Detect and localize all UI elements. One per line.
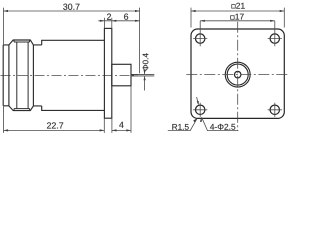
arrow dim 2 left (100, 20, 105, 22)
arrow 30.7 right (135, 10, 140, 12)
arrow 4-phi2.5 to hole (200, 117, 202, 122)
centerline left view (1, 74, 137, 76)
arrow square17 right (270, 20, 275, 22)
coupling nut outline (9, 40, 34, 111)
crosshair hole bottom-left (193, 103, 207, 117)
arrow phi0.4 up (144, 76, 146, 80)
neck section (33, 45, 41, 106)
mounting hole bottom-left (196, 105, 205, 114)
phi0.4 dimension line upper (144, 70, 146, 74)
mounting hole top-right (270, 34, 279, 43)
mounting hole bottom-right (270, 105, 279, 114)
rear insulator bushing (112, 64, 131, 86)
dimension text 22.7 (47, 122, 63, 128)
square flange outline (191, 29, 284, 118)
connector boss inner ring (227, 64, 248, 85)
nut knurl vertical 2 (27, 42, 29, 109)
arrow dim 6 right (135, 20, 140, 22)
extension line pin tip (139, 8, 141, 74)
dimension text 4 (119, 122, 123, 128)
dimension text phi 0.4 rotated (143, 53, 149, 70)
center pin hole (234, 71, 241, 78)
dimension text 6 (124, 14, 128, 20)
front interface band (3, 45, 9, 106)
mounting hole top-left (196, 34, 205, 43)
mounting flange side view (104, 28, 111, 118)
square symbol for 17 (231, 16, 235, 20)
extension lines flange faces (104, 18, 111, 28)
arrow R1.5 to corner (193, 118, 197, 122)
dimension text 30.7 (63, 4, 79, 10)
dimension line 2 and 6 (98, 20, 139, 22)
dimension line 4 (112, 129, 131, 131)
arrow phi0.4 down (144, 70, 146, 74)
dimension line square 21 (191, 10, 284, 12)
contact pin (131, 74, 139, 76)
arrow 4 right (126, 129, 131, 131)
vertical centerline right view (237, 22, 239, 131)
connector boss outer circle (225, 62, 250, 87)
arrow 22.7 right (100, 129, 105, 131)
crosshair hole top-left (193, 21, 207, 46)
leader 4-phi2.5 (202, 117, 239, 130)
nut chamfer lines (14, 40, 30, 111)
dimension line square 17 (200, 20, 275, 22)
pin diameter extension lines (139, 74, 155, 76)
arrow 22.7 left (4, 129, 9, 131)
arrow square17 left (200, 20, 205, 22)
extension lines square 21 (191, 8, 284, 28)
arrow square21 left (191, 10, 196, 12)
dimension text 4-phi2.5 (210, 124, 235, 130)
crosshair hole bottom-right (268, 103, 282, 117)
arrow dim 2 right (112, 20, 117, 22)
arrow square21 right (280, 10, 285, 12)
arrow 30.7 left (3, 10, 8, 12)
bottom extension lines (4, 86, 132, 133)
dimension text 2 (107, 14, 111, 20)
nut knurl vertical 1 (16, 42, 18, 109)
arrow 4 left (112, 129, 117, 131)
dimension line 22.7 (4, 129, 105, 131)
dimension text 17 (235, 14, 243, 20)
horizontal centerline right view (186, 74, 288, 76)
crosshair hole top-right (268, 21, 282, 46)
square symbol for 21 (232, 5, 236, 9)
dimension line 30.7 (3, 10, 139, 12)
phi0.4 dimension line lower (144, 76, 146, 90)
leader R1.5 (168, 119, 197, 131)
corner radius arrow stroke (197, 97, 199, 104)
dimension text 21 (236, 3, 245, 9)
arrow pointing down to hole (197, 101, 199, 105)
main body (42, 40, 105, 110)
dimension text R1.5 (172, 124, 188, 130)
extension line left end (2, 8, 4, 45)
